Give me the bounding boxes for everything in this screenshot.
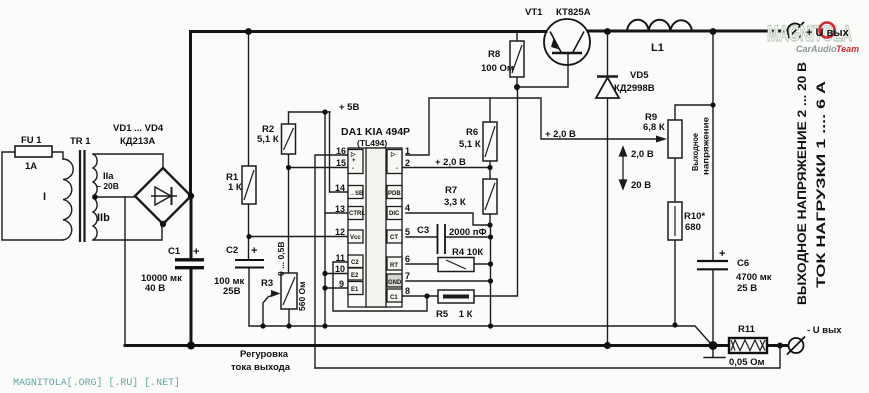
svg-text:MAGNITOLA[.ORG] [.RU] [.NET]: MAGNITOLA[.ORG] [.RU] [.NET] [13,377,180,389]
svg-text:1A: 1A [25,161,37,172]
svg-text:C6: C6 [737,258,749,269]
svg-text:+: + [193,246,199,258]
svg-text:VT1: VT1 [525,7,543,18]
svg-text:CT: CT [390,235,398,241]
svg-text:КД2998В: КД2998В [614,83,655,94]
svg-text:100 Ом: 100 Ом [481,63,514,74]
svg-text:R4 10К: R4 10К [452,247,483,258]
svg-text:R3: R3 [261,278,273,289]
svg-text:R7: R7 [445,185,457,196]
svg-text:~ 20В: ~ 20В [96,181,119,191]
svg-text:▷: ▷ [390,151,396,158]
svg-text:C3: C3 [417,225,429,236]
svg-text:9: 9 [339,279,344,289]
svg-text:5,1 К: 5,1 К [257,134,279,145]
svg-text:2000 пФ: 2000 пФ [449,227,487,238]
svg-text:→SB: →SB [349,191,364,197]
svg-text:GND: GND [388,280,402,286]
svg-text:25В: 25В [223,286,241,297]
svg-text:14: 14 [335,183,345,193]
svg-text:12: 12 [335,227,345,237]
svg-text:2,0 В: 2,0 В [631,149,654,160]
svg-text:3,3 К: 3,3 К [444,197,466,208]
svg-text:2: 2 [405,158,410,168]
svg-text:КТ825А: КТ825А [556,7,591,18]
svg-text:13: 13 [335,204,345,214]
svg-text:DIC: DIC [389,211,400,217]
svg-text:E2: E2 [351,273,359,279]
svg-text:E1: E1 [351,287,359,293]
svg-text:R11: R11 [738,324,756,335]
svg-text:560 Ом: 560 Ом [297,282,307,311]
svg-text:VD1 ... VD4: VD1 ... VD4 [113,123,164,134]
svg-text:8: 8 [405,286,410,296]
svg-text:Регуровка: Регуровка [240,349,289,360]
svg-text:FU 1: FU 1 [21,135,42,146]
svg-text:15: 15 [336,158,346,168]
svg-text:+: + [251,245,257,257]
svg-text:R10*: R10* [684,211,705,222]
svg-text:тока выхода: тока выхода [231,362,291,373]
svg-text:7: 7 [405,271,410,281]
svg-text:40 В: 40 В [145,283,165,294]
svg-text:10: 10 [335,264,345,274]
svg-text:25 В: 25 В [737,283,757,294]
svg-text:+ 2,0 В: + 2,0 В [545,129,576,140]
svg-text:VD5: VD5 [630,70,649,81]
svg-text:L1: L1 [651,42,664,54]
svg-text:5: 5 [405,227,410,237]
svg-text:4700 мк: 4700 мк [736,272,772,283]
svg-text:PDB: PDB [388,191,401,197]
svg-text:DA1 KIA 494P: DA1 KIA 494P [341,126,410,138]
svg-text:0,05 Ом: 0,05 Ом [729,357,765,368]
svg-text:Vcc: Vcc [350,235,361,241]
svg-text:Выходное: Выходное [691,132,700,171]
svg-text:TR 1: TR 1 [70,136,91,147]
svg-text:6,8 К: 6,8 К [643,122,665,133]
svg-text:5,1 К: 5,1 К [459,139,481,150]
svg-text:+ 2,0 В: + 2,0 В [435,157,466,168]
svg-text:+: + [352,158,356,164]
svg-text:I: I [43,191,46,203]
svg-text:Team: Team [836,44,859,54]
svg-text:4: 4 [405,203,410,213]
svg-text:6: 6 [405,254,410,264]
svg-text:-: - [396,166,398,172]
svg-text:R8: R8 [488,49,500,60]
svg-text:ВЫХОДНОЕ НАПРЯЖЕНИЕ 2 ... 20: ВЫХОДНОЕ НАПРЯЖЕНИЕ 2 ... 20 В [795,62,809,305]
svg-text:11: 11 [335,253,345,263]
svg-text:+ 5В: + 5В [339,102,359,113]
svg-text:C1: C1 [168,246,181,257]
svg-text:+ U вых: + U вых [806,27,850,39]
svg-text:1: 1 [405,146,410,156]
svg-text:680: 680 [685,222,701,233]
svg-text:20 В: 20 В [631,180,651,191]
svg-text:R5 1 К: R5 1 К [436,309,473,320]
svg-text:1 К: 1 К [228,182,242,193]
svg-text:16: 16 [336,146,346,156]
svg-text:IIb: IIb [97,212,110,224]
svg-text:ТОК НАГРУЗКИ 1 .... 6 А: ТОК НАГРУЗКИ 1 .... 6 А [814,81,828,288]
svg-text:КД213А: КД213А [120,136,155,147]
svg-text:(TL494): (TL494) [357,138,387,148]
svg-text:0 ... 0,5В: 0 ... 0,5В [276,242,286,277]
svg-text:напряжение: напряжение [702,116,711,175]
svg-text:RT: RT [390,263,398,269]
svg-text:-: - [352,166,354,172]
svg-text:C2: C2 [226,245,238,256]
svg-text:- U вых: - U вых [807,325,842,336]
svg-text:▷: ▷ [350,151,356,158]
svg-text:C2: C2 [351,260,359,266]
svg-text:CTRL: CTRL [349,211,365,217]
svg-text:CarAudio: CarAudio [796,44,837,54]
svg-text:R6: R6 [466,127,478,138]
svg-text:+: + [719,248,725,260]
svg-text:C1: C1 [390,295,398,301]
